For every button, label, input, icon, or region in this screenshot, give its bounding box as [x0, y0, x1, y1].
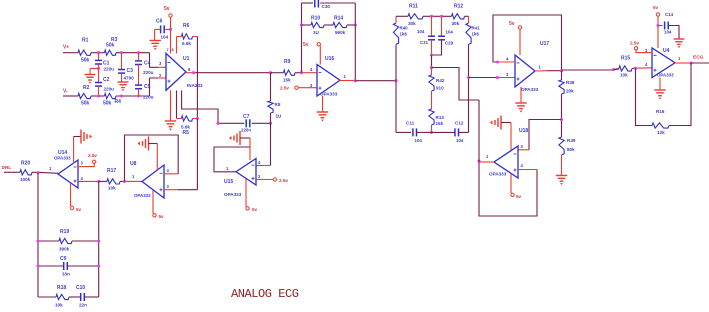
svg-text:OPA333: OPA333	[134, 193, 151, 198]
svg-text:104: 104	[664, 30, 672, 35]
pin 2 label U1	[159, 73, 162, 78]
wire U18 output	[479, 161, 494, 163]
node 2.5v U14	[78, 153, 97, 167]
node R19 right	[97, 239, 100, 242]
svg-text:R38: R38	[566, 80, 575, 85]
pin 4 label U4	[645, 62, 648, 67]
svg-text:OPA333: OPA333	[657, 73, 674, 78]
resistor R18	[38, 285, 69, 308]
node mid top	[430, 53, 433, 56]
svg-text:ANALOG ECG: ANALOG ECG	[231, 287, 299, 301]
capacitor C30	[315, 0, 331, 9]
wire U16 fb top	[302, 2, 356, 4]
op-amp U14 OPA333	[54, 150, 78, 188]
svg-text:5v: 5v	[516, 194, 522, 199]
wire R5R6 to U8 pin3	[196, 119, 198, 190]
svg-text:2.5v: 2.5v	[279, 178, 288, 183]
op-amp U16 OPA333	[317, 56, 340, 97]
svg-text:OPA333: OPA333	[54, 156, 71, 161]
bypass ground U18	[490, 116, 511, 151]
svg-text:R4: R4	[115, 99, 122, 105]
node R15 in	[612, 68, 615, 71]
op-amp U17 OPA333	[515, 41, 549, 92]
resistor R12	[452, 4, 465, 26]
wire mid to U18 drop	[432, 68, 480, 101]
wire U17 out long	[562, 69, 620, 70]
capacitor C6	[155, 19, 171, 40]
node divider	[560, 118, 563, 121]
svg-text:10k: 10k	[55, 303, 63, 308]
wire U16 fb right	[354, 3, 356, 81]
svg-text:R12: R12	[454, 4, 463, 10]
ground U4	[654, 78, 665, 100]
wire filter top right	[465, 15, 469, 17]
wire filter out to U17	[469, 77, 516, 79]
wire R16 fb box	[636, 63, 692, 126]
wire filter top left	[396, 15, 408, 17]
wire R17 to U8	[120, 180, 142, 182]
node V+ input	[63, 45, 78, 53]
svg-text:104: 104	[446, 30, 454, 35]
svg-text:560k: 560k	[335, 30, 346, 35]
svg-text:5v: 5v	[76, 207, 82, 212]
node C14 junction	[656, 24, 659, 27]
resistor R17	[107, 168, 120, 191]
svg-text:C11: C11	[406, 121, 415, 126]
svg-text:R41: R41	[472, 26, 481, 31]
pin 1 label U16	[344, 74, 347, 79]
wire U1 pin8	[176, 36, 178, 53]
svg-text:C14: C14	[665, 12, 674, 17]
wire filter bottom left	[396, 131, 411, 133]
svg-text:R5: R5	[183, 130, 190, 136]
pin 1 label U8	[132, 174, 135, 179]
svg-text:104: 104	[417, 29, 425, 34]
wire top rail	[116, 52, 150, 54]
resistor R42	[429, 68, 445, 92]
svg-text:DRL: DRL	[2, 165, 12, 171]
svg-text:5v: 5v	[509, 21, 515, 27]
svg-text:1U: 1U	[276, 114, 283, 119]
power 5v U1	[164, 6, 172, 29]
node DRL input	[2, 165, 21, 172]
resistor R1	[78, 38, 91, 64]
wire U14 pin4	[78, 180, 99, 182]
ground U17	[515, 87, 526, 113]
wire U18 fb box	[479, 100, 537, 216]
node J3	[137, 51, 140, 54]
node U4 out	[689, 61, 692, 64]
pin 3 label U8	[167, 184, 170, 189]
node 2.5v U15	[256, 178, 288, 183]
wire U16 out to filter	[355, 80, 396, 82]
svg-text:U1: U1	[183, 56, 190, 62]
pin 4 label U8	[167, 168, 170, 173]
node fb right mid	[354, 23, 357, 26]
node U1 out	[192, 71, 195, 74]
svg-text:C29: C29	[445, 41, 454, 46]
svg-text:104: 104	[415, 138, 423, 143]
power 5v U14	[70, 183, 81, 212]
svg-text:U15: U15	[224, 179, 233, 185]
wire mid	[431, 55, 433, 68]
pin 3 label U17	[506, 72, 509, 77]
node J6	[137, 94, 140, 97]
svg-text:OPA333: OPA333	[489, 172, 507, 177]
resistor R14	[324, 16, 355, 36]
resistor R4	[103, 93, 121, 106]
wire R11 to R12	[423, 15, 452, 17]
node R13 bottom	[430, 131, 433, 134]
node U17 pin3	[496, 76, 499, 79]
node R8 bottom	[269, 122, 272, 125]
wire R2 to R4	[91, 95, 105, 97]
power 5v U17	[509, 21, 522, 55]
svg-text:30k: 30k	[408, 21, 416, 26]
svg-text:R39: R39	[567, 138, 576, 143]
wire U4 output	[675, 62, 691, 64]
node C31 top	[430, 15, 433, 18]
op-amp U1 INA333	[166, 53, 203, 90]
svg-text:5v: 5v	[252, 207, 258, 212]
wire U16 output	[340, 80, 355, 82]
wire filter right rail	[468, 45, 470, 133]
svg-text:80k: 80k	[567, 147, 575, 152]
title ANALOG ECG	[231, 287, 299, 301]
resistor R3	[105, 37, 118, 55]
svg-text:8: 8	[172, 48, 174, 52]
wire C4 to C5	[138, 65, 140, 86]
capacitor C12	[455, 121, 464, 143]
capacitor C29	[432, 16, 454, 55]
svg-text:U16: U16	[325, 56, 334, 62]
svg-text:OPA333: OPA333	[224, 192, 242, 197]
svg-text:50k: 50k	[81, 101, 90, 107]
ground R39	[556, 155, 567, 185]
pin 3 label U14	[81, 161, 84, 166]
svg-text:C12: C12	[455, 121, 464, 126]
node U17 out	[560, 69, 563, 72]
op-amp U15 OPA333	[224, 159, 256, 198]
wire bottom rail	[116, 95, 150, 97]
capacitor C3	[118, 53, 134, 81]
wire C7 to R8	[252, 122, 271, 124]
svg-text:OPA333: OPA333	[521, 87, 539, 92]
svg-text:1k8: 1k8	[472, 32, 480, 37]
svg-text:R13: R13	[436, 115, 445, 120]
node C9 left	[36, 264, 39, 267]
wire top input to U1 pin3	[150, 53, 167, 68]
resistor R41	[466, 16, 480, 44]
svg-text:5v: 5v	[159, 214, 165, 219]
svg-text:1U: 1U	[313, 30, 320, 35]
node J4	[97, 94, 100, 97]
wire R42 to R13	[431, 91, 433, 109]
svg-text:50k: 50k	[103, 101, 112, 107]
svg-text:50k: 50k	[106, 43, 115, 49]
svg-text:5.6k: 5.6k	[182, 41, 191, 46]
node U16 out	[354, 79, 357, 82]
pin 3 label U18	[521, 144, 524, 149]
resistor R8	[268, 73, 282, 119]
node C29 top	[440, 15, 443, 18]
node R17 out	[123, 180, 126, 183]
node J1	[97, 51, 100, 54]
node U18 out	[477, 159, 480, 162]
svg-text:C2: C2	[103, 77, 110, 83]
svg-text:R40: R40	[400, 26, 409, 31]
wire U1 pin1	[176, 90, 178, 118]
node fb left mid	[300, 23, 303, 26]
svg-text:V-: V-	[63, 89, 68, 95]
capacitor C7	[241, 114, 251, 133]
svg-text:220u: 220u	[143, 95, 154, 100]
wire U17 fb	[493, 15, 562, 71]
wire DRL box right rail	[98, 181, 100, 297]
svg-text:V+: V+	[63, 45, 69, 51]
svg-text:R2: R2	[83, 85, 90, 91]
node ECG output	[691, 55, 709, 64]
svg-text:20k: 20k	[566, 89, 574, 94]
pin 1 label U15	[226, 166, 229, 171]
capacitor C4	[135, 53, 154, 75]
svg-text:U17: U17	[540, 41, 549, 47]
wire pin4 to R17	[99, 180, 107, 182]
svg-text:C30: C30	[322, 4, 331, 9]
node R19 left	[36, 239, 39, 242]
pin 4 label U18	[521, 163, 524, 168]
wire DRL box left rail	[37, 173, 39, 297]
wire U1 pin7 supply	[170, 29, 172, 53]
pin 3 label U4	[645, 48, 648, 53]
svg-text:OPA333: OPA333	[320, 92, 338, 97]
wire R13 to C12	[432, 131, 455, 133]
wire U8 pin3	[164, 189, 197, 191]
ground C6	[150, 29, 161, 50]
op-amp U18 OPA333	[489, 128, 528, 178]
capacitor C31	[417, 16, 435, 55]
svg-text:INA333: INA333	[187, 83, 203, 88]
capacitor C11	[406, 121, 422, 143]
resistor R2	[78, 85, 91, 107]
resistor R20	[20, 161, 32, 183]
resistor R19	[38, 229, 99, 252]
node mid junction	[430, 66, 433, 69]
resistor R10	[302, 16, 325, 36]
pin 4 label U16	[310, 67, 313, 72]
node R8 top junction	[269, 71, 272, 74]
svg-text:C10: C10	[76, 285, 85, 291]
wire R8 to U15 pin4	[256, 113, 271, 166]
wire C11 to R13	[417, 131, 432, 133]
svg-text:R17: R17	[107, 168, 116, 174]
node 2.5v U16	[280, 86, 317, 91]
node C9 right	[97, 264, 100, 267]
svg-text:C31: C31	[420, 40, 429, 45]
svg-text:R10: R10	[311, 16, 320, 22]
resistor R5	[177, 116, 198, 136]
ground U1	[165, 90, 176, 130]
svg-text:2.5v: 2.5v	[630, 41, 639, 46]
svg-text:R9: R9	[284, 59, 291, 65]
svg-text:ECG: ECG	[693, 55, 704, 61]
svg-text:C9: C9	[60, 256, 67, 262]
node filter out	[467, 76, 470, 79]
svg-text:U4: U4	[663, 48, 670, 54]
wire bottom input to U1 pin2	[150, 78, 167, 96]
power 5v U8	[153, 190, 164, 219]
ground C14	[668, 26, 684, 49]
op-amp U8 OPA333	[130, 161, 164, 198]
pin 3 label U16	[310, 83, 313, 88]
node C1-C2 mid	[97, 67, 100, 70]
capacitor C5	[135, 84, 154, 100]
resistor R15	[614, 56, 633, 78]
node R5-R6 junction	[196, 117, 199, 120]
wire R20 to U14	[32, 172, 58, 173]
wire U1 output	[186, 72, 271, 74]
svg-text:10k: 10k	[108, 186, 116, 191]
svg-text:4700: 4700	[124, 76, 135, 81]
node J5	[120, 94, 123, 97]
svg-text:R1: R1	[82, 38, 89, 44]
ground U16	[317, 96, 328, 122]
svg-text:R19: R19	[60, 229, 69, 235]
resistor R6	[177, 23, 198, 46]
svg-text:R6: R6	[183, 23, 190, 29]
wire U16 fb left	[301, 3, 303, 73]
wire R1 to R3	[91, 52, 105, 54]
svg-text:220u: 220u	[104, 87, 115, 92]
pin 4 label U17	[506, 57, 509, 62]
svg-text:C7: C7	[243, 114, 250, 120]
node V- input	[63, 89, 78, 97]
wire R15 to U4	[632, 67, 652, 70]
svg-text:104: 104	[456, 138, 464, 143]
node U16 in	[300, 71, 303, 74]
pin 4 label U14	[81, 176, 84, 181]
svg-text:R8: R8	[275, 102, 281, 107]
wire R9 to U16	[295, 72, 317, 74]
pin 1 label U18	[486, 154, 489, 159]
svg-text:33n: 33n	[62, 272, 70, 277]
svg-text:R42: R42	[436, 78, 445, 83]
svg-text:10k: 10k	[620, 73, 628, 78]
pin 8 label U1	[172, 48, 174, 52]
svg-text:R18: R18	[57, 285, 66, 291]
wire U15 output loop	[214, 147, 250, 172]
pin 6 label U1	[188, 67, 191, 72]
wire R6 right down to R5	[196, 36, 198, 118]
svg-text:30k: 30k	[452, 21, 460, 26]
wire divider to U18	[518, 120, 562, 150]
wire filter bottom right	[459, 131, 469, 133]
svg-text:22n: 22n	[79, 303, 87, 308]
resistor R39	[559, 137, 576, 155]
ground C3	[117, 73, 128, 91]
svg-text:15k: 15k	[283, 78, 291, 83]
wire R38 to R39	[561, 94, 563, 137]
svg-text:104: 104	[161, 35, 169, 40]
svg-text:R20: R20	[21, 161, 30, 167]
resistor R16	[652, 109, 669, 135]
svg-text:12k: 12k	[657, 130, 665, 135]
node C6 junction	[169, 28, 172, 31]
capacitor C9	[38, 256, 99, 277]
svg-text:2.5v: 2.5v	[280, 86, 289, 91]
capacitor C1	[95, 53, 114, 83]
capacitor C14	[658, 12, 674, 35]
op-amp U4 OPA333	[652, 48, 675, 78]
pin 4 label U15	[258, 160, 261, 165]
svg-text:50k: 50k	[81, 58, 90, 64]
svg-text:2.5v: 2.5v	[88, 153, 97, 158]
wire U17 output	[535, 70, 562, 72]
node filter in	[394, 79, 397, 82]
power 5v U15	[246, 179, 258, 212]
node R20 out	[36, 171, 39, 174]
svg-text:7: 7	[167, 48, 169, 52]
svg-text:R11: R11	[409, 4, 418, 10]
wire REF to C7	[218, 122, 244, 124]
bypass ground U15	[229, 131, 250, 160]
svg-text:1k8: 1k8	[400, 32, 408, 37]
pin 1 label U14	[49, 166, 52, 171]
svg-text:C3: C3	[127, 68, 134, 74]
node 2.5v U4	[630, 41, 652, 53]
pin 7 label U1	[167, 48, 169, 52]
resistor R13	[429, 109, 444, 132]
capacitor C2	[95, 77, 114, 96]
power 5v U18	[511, 174, 522, 200]
svg-text:220u: 220u	[143, 70, 154, 75]
wire U1 REF pin	[182, 90, 218, 123]
pin 2 label U15	[258, 174, 261, 179]
bypass ground U14	[74, 130, 92, 164]
svg-text:5v: 5v	[164, 6, 170, 12]
svg-text:100k: 100k	[20, 177, 31, 182]
svg-text:R16: R16	[656, 109, 665, 114]
wire U8 fb box	[125, 135, 179, 181]
svg-text:C6: C6	[156, 19, 163, 25]
bypass ground U8	[138, 137, 158, 171]
resistor R9	[283, 59, 295, 83]
svg-text:5v: 5v	[653, 5, 659, 10]
power 5v U16	[303, 42, 320, 65]
svg-text:5.6k: 5.6k	[181, 125, 190, 130]
pin 1 label U17	[539, 65, 542, 70]
node J2	[120, 51, 123, 54]
resistor R40	[393, 16, 408, 80]
svg-text:U8: U8	[130, 161, 137, 167]
svg-text:R15: R15	[621, 56, 630, 62]
node C7 left	[216, 122, 219, 125]
svg-text:15k: 15k	[436, 121, 444, 126]
svg-text:220n: 220n	[241, 128, 251, 133]
ground input mid	[84, 69, 98, 84]
node U4 pin4	[634, 67, 637, 70]
power 5v U4	[653, 5, 660, 48]
resistor R11	[408, 4, 423, 26]
svg-text:U18: U18	[519, 128, 528, 134]
node U14 pin4 junction	[97, 180, 100, 183]
svg-text:910: 910	[436, 86, 444, 91]
svg-text:390k: 390k	[59, 247, 70, 252]
capacitor C10	[69, 285, 99, 308]
svg-text:R14: R14	[334, 16, 343, 22]
pin 1 label U4	[678, 56, 681, 61]
resistor R38	[559, 71, 575, 94]
